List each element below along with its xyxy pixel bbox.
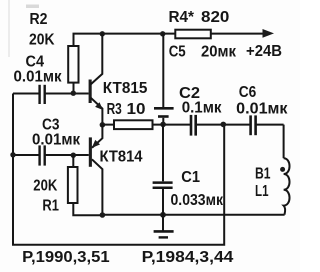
svg-text:КТ814: КТ814 [100,149,143,166]
inductor winding start dot [280,167,285,172]
wire R2 bottom lead [73,83,75,94]
node C5/C1 main line junction [160,122,166,128]
inductor L1 speaker B1 [284,158,290,214]
node R2-base junction [71,91,76,96]
wire left feedback rail [13,94,224,245]
svg-text:+24В: +24В [246,43,282,60]
svg-text:C1: C1 [181,169,200,186]
arrow +24V [263,29,275,38]
resistor R3 [114,120,153,129]
node junction top C5 [160,31,165,36]
svg-text:0.033мк: 0.033мк [171,192,224,209]
svg-text:20K: 20K [29,31,55,48]
transistor Q1 emitter [91,98,103,125]
wire right drop to coil [283,125,285,159]
capacitor C6 [249,115,252,135]
svg-text:0.01мк: 0.01мк [236,100,288,117]
capacitor C2 [190,115,193,136]
capacitor C4 [38,85,40,104]
svg-text:R3: R3 [107,101,122,118]
svg-text:R4*: R4* [169,9,195,26]
capacitor C3 [38,145,40,165]
svg-text:820: 820 [201,9,229,26]
transistor Q1 KT815 base bar [89,80,92,104]
transistor Q1 collector [91,34,103,85]
node junction top collector KT815 [100,31,105,36]
capacitor C5 plates [154,107,174,110]
capacitor C1 lead top [162,124,164,181]
wire R1 bottom lead [73,203,102,215]
faint scan smudge [26,5,39,9]
resistor R2 [68,46,78,83]
wire base KT814 [13,154,39,156]
node left rail C3 junction [10,152,15,157]
resistor R4 [175,30,211,39]
wire mid signal line [102,124,190,126]
faint scan fold line [8,0,10,57]
transistor Q2 KT814 base bar [89,137,92,166]
svg-text:L1: L1 [255,183,269,200]
svg-text:Р,1984,3,44: Р,1984,3,44 [142,249,234,266]
wire R1 top lead [72,155,74,167]
node emitters junction [100,122,106,128]
capacitor C1 lead bottom [162,189,164,215]
svg-text:КТ815: КТ815 [103,80,148,97]
svg-text:20мк: 20мк [201,44,237,61]
resistor R1 [68,167,78,203]
svg-text:0.01мк: 0.01мк [14,68,63,85]
svg-text:0.01мк: 0.01мк [32,132,81,149]
svg-text:R1: R1 [42,197,59,214]
transistor Q2 collector [92,159,103,215]
svg-text:C5: C5 [169,44,186,61]
svg-text:Р,1990,3,51: Р,1990,3,51 [22,249,110,266]
wire base KT815 [13,93,39,95]
wire top rail +24V [74,34,264,46]
transistor Q2 emitter [92,125,102,148]
svg-text:C6: C6 [239,84,257,101]
ground symbol [162,215,164,231]
transistor Q1 emitter arrow [95,102,103,110]
node R1-base junction [71,153,76,158]
svg-text:В1: В1 [255,165,271,182]
node C2-C6 tap junction [221,122,227,128]
svg-text:10: 10 [127,101,146,118]
capacitor C5 lead [162,34,164,107]
svg-text:0.1мк: 0.1мк [182,100,223,117]
capacitor C1 plates [153,181,173,184]
node C1 ground junction [160,212,166,218]
transistor Q2 emitter arrow [92,140,100,148]
svg-text:R2: R2 [30,11,48,28]
wire ground rail [102,214,284,216]
svg-text:20K: 20K [33,178,57,195]
node R1/collector ground junction [100,212,106,218]
